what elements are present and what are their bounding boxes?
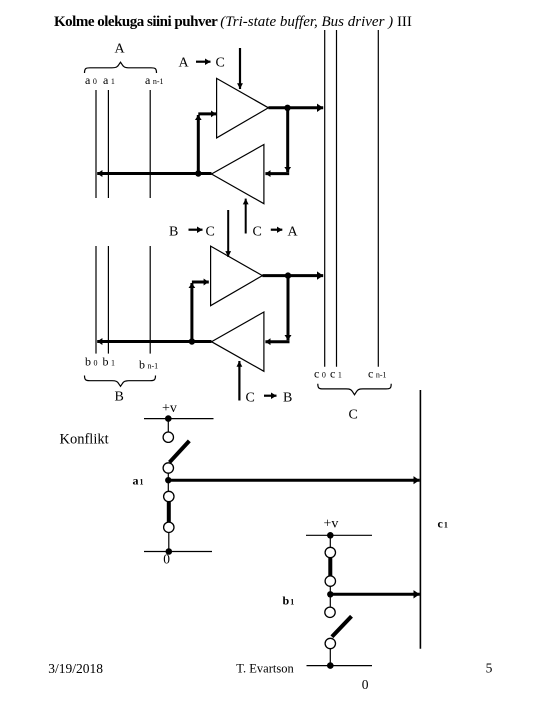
wire C-bus line c0 [324,30,326,367]
label B -> C [169,225,215,240]
wire enable arrow into U3 [227,210,229,257]
wire riser to U1 input [197,115,200,174]
wire contact to ground rail [168,533,170,552]
node dot on ground rail b1 [327,662,334,669]
wire C-bus line cn-1 [377,30,379,367]
svg-text:T. Evartson: T. Evartson [236,662,294,676]
contact circle upper (b1 pull-down switch, open) [325,607,335,617]
node junction on U1 output [284,105,290,111]
contact circle lower (a1 pull-up switch) [163,463,173,473]
svg-text:B: B [283,391,292,406]
wire ground rail (switch b1) [307,665,373,667]
node junction on A output wire [195,170,201,176]
wire into U4 input [265,340,289,343]
wire stem +v to upper contact [329,535,331,547]
wire stem +v to upper contact [167,419,169,432]
svg-text:C: C [253,225,262,240]
svg-text:A: A [288,225,299,240]
wire A-bus line an-1 [149,90,151,198]
wire feedback down from U3 output [287,276,290,341]
wire +v rail (switch a1) [144,418,214,420]
wire U4 output to B bus [97,340,211,343]
svg-text:5: 5 [486,661,493,676]
svg-text:C: C [246,391,255,406]
node b1 junction dot [327,591,333,597]
wire into U1 input [198,112,216,115]
node a1 junction dot [165,477,171,483]
svg-text:C: C [206,225,215,240]
contact circle upper (a1 pull-down switch, closed) [164,491,174,501]
svg-text:C: C [349,408,358,423]
svg-text:3/19/2018: 3/19/2018 [48,661,103,676]
contact circle upper (a1 pull-up switch, open) [163,432,173,442]
op-amp U2 buffer C->A [212,145,264,204]
svg-text:B: B [169,225,178,240]
node dot on +v rail a1 [165,415,172,422]
svg-text:+v: +v [162,401,177,416]
svg-text:A: A [179,56,190,71]
brace A [85,62,157,73]
wire U3 output to C bus [262,274,323,277]
svg-text:0: 0 [163,551,170,566]
wire enable arrow into U1 [239,48,241,89]
switch lever open (a1 pull-up) [170,441,190,462]
svg-text:B: B [115,390,124,405]
contact circle lower (b1 pull-down switch) [325,638,335,648]
wire U2 output to A bus [97,172,211,175]
wire B-bus line b1 [107,246,109,354]
node junction on B output wire [189,338,195,344]
svg-text:0: 0 [362,677,369,692]
wire ground rail (switch a1) [144,551,212,553]
wire B-bus line b0 [95,246,97,354]
node dot on ground rail a1 [166,548,173,555]
wire into U3 input [192,281,209,284]
node junction on U3 output [285,272,291,278]
brace C [318,384,391,395]
svg-text:A: A [115,42,126,57]
wire feedback down from U1 output [286,108,289,172]
wire contact to node b1 [329,586,331,607]
wire b1 to c1 line (conflict arrow) [330,593,419,596]
wire contact to node a1 [167,473,169,491]
wire U1 output to C bus [268,106,323,109]
label A -> C [179,56,225,71]
wire +v rail (switch b1) [306,534,372,536]
wire into U2 input [265,172,289,175]
label C -> B [246,391,293,406]
svg-text:Kolme olekuga siini puhver (Tr: Kolme olekuga siini puhver (Tri-state bu… [54,14,412,30]
wire enable arrow into U2 [245,199,247,234]
svg-text:+v: +v [324,517,339,532]
op-amp U3 buffer B->C [211,246,263,306]
wire c1 tap vertical line [419,390,421,649]
wire a1 to c1 line (conflict arrow) [168,479,419,482]
wire contact to ground rail [329,649,331,666]
svg-text:Konflikt: Konflikt [60,432,109,448]
label C -> A [253,225,299,240]
op-amp U1 buffer A->C [217,78,269,137]
wire enable arrow into U4 [238,361,240,401]
switch lever open (b1 pull-down) [332,616,352,637]
wire B-bus line bn-1 [149,246,151,354]
wire C-bus line c1 [336,30,338,367]
switch lever closed (b1 pull-up) [328,558,332,576]
switch lever closed (a1 pull-down) [167,502,171,522]
contact circle upper (b1 pull-up switch, closed) [325,547,335,557]
contact circle lower (a1 pull-down switch) [164,522,174,532]
wire A-bus line a1 [107,90,109,198]
wire A-bus line a0 [95,90,97,198]
op-amp U4 buffer C->B [212,312,264,371]
node dot on +v rail b1 [327,532,334,539]
wire riser to U3 input [190,283,193,342]
contact circle lower (b1 pull-up switch) [325,576,335,586]
svg-text:C: C [216,56,225,71]
brace B [85,376,156,387]
